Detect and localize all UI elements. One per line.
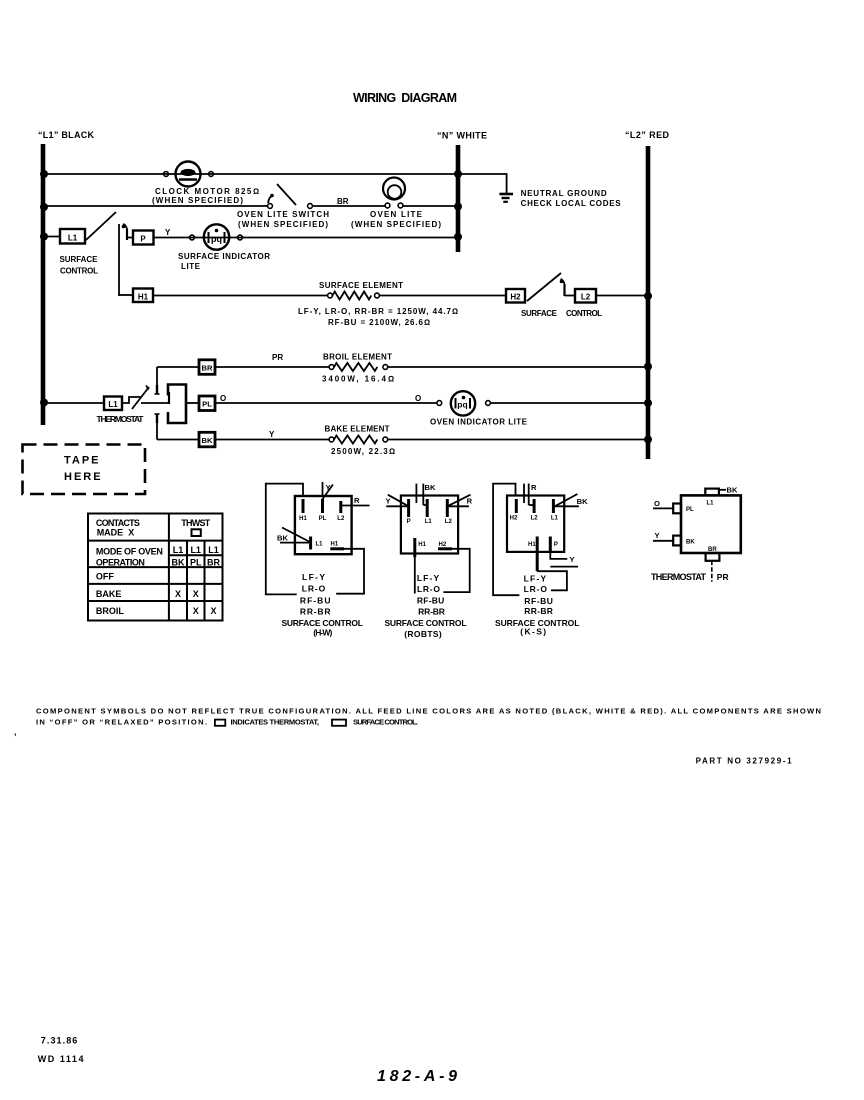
junction L2-bus/broil line: [644, 363, 652, 371]
svg-text:P: P: [140, 235, 146, 244]
svg-text:7.31.86: 7.31.86: [41, 1036, 78, 1046]
wire Y input (thermostat detail): [653, 540, 673, 542]
thermostat moving contact lower: [155, 414, 160, 423]
svg-text:H2: H2: [510, 516, 518, 522]
svg-text:PL: PL: [202, 400, 212, 409]
svg-text:SURFACE CONTROL: SURFACE CONTROL: [384, 618, 466, 628]
terminal H1 (H-W top): [299, 499, 307, 522]
wire K-S outer right loop: [537, 571, 567, 590]
svg-text:(WHEN SPECIFIED): (WHEN SPECIFIED): [152, 196, 243, 205]
svg-text:LF-Y, LR-O, RR-BR = 1250W, 44.: LF-Y, LR-O, RR-BR = 1250W, 44.7Ω: [298, 307, 458, 316]
svg-text:BK: BK: [727, 486, 738, 495]
svg-text:BR: BR: [202, 364, 213, 373]
surface element heater R1: [333, 292, 372, 300]
wire line2 L1-bus to oven lite switch: [43, 205, 268, 207]
svg-text:pq: pq: [211, 234, 222, 244]
wire R output (H-W): [341, 505, 370, 507]
svg-text:Y: Y: [165, 228, 171, 237]
svg-text:INDICATES THERMOSTAT,: INDICATES THERMOSTAT,: [231, 718, 320, 727]
terminal P (K-S bottom): [550, 537, 558, 554]
surface control terminal box L2: [575, 289, 596, 303]
wire Y underline (K-S): [550, 566, 578, 568]
svg-text:(H-W): (H-W): [313, 628, 332, 638]
svg-text:’: ’: [14, 732, 17, 742]
svg-text:L1: L1: [108, 400, 118, 409]
svg-text:COMPONENT SYMBOLS DO NOT REFLE: COMPONENT SYMBOLS DO NOT REFLECT TRUE CO…: [36, 707, 821, 716]
svg-text:2500W, 22.3Ω: 2500W, 22.3Ω: [331, 447, 395, 456]
thermostat PL tab (left upper): [673, 504, 681, 514]
clock motor B1: [176, 162, 201, 187]
svg-text:H1: H1: [299, 516, 307, 522]
svg-text:LF-Y: LF-Y: [524, 573, 547, 583]
wire line1 L1-bus to N-bus (clock motor line): [43, 173, 458, 175]
svg-text:RR-BR: RR-BR: [300, 607, 331, 617]
svg-text:BK: BK: [425, 483, 436, 492]
svg-text:BROIL: BROIL: [96, 606, 125, 616]
svg-text:PL: PL: [686, 507, 694, 513]
svg-text:BAKE ELEMENT: BAKE ELEMENT: [325, 425, 390, 434]
thermostat terminal box PL: [199, 396, 215, 411]
svg-text:3400W, 16.4Ω: 3400W, 16.4Ω: [322, 375, 394, 384]
wire BK input (H-W): [280, 542, 309, 544]
junction L2-bus/bake line: [644, 436, 652, 444]
wire P box to indicator lamp: [154, 237, 459, 239]
svg-text:LR-O: LR-O: [417, 584, 440, 594]
svg-text:H1: H1: [528, 542, 536, 548]
svg-text:(ROBTS): (ROBTS): [404, 629, 442, 639]
svg-text:R: R: [531, 483, 537, 492]
junction N-bus/line1: [454, 170, 462, 178]
wire R input (ROBTS): [449, 505, 469, 507]
svg-text:LR-O: LR-O: [524, 584, 548, 594]
svg-text:“L2” RED: “L2” RED: [625, 130, 670, 140]
svg-text:NEUTRAL GROUND: NEUTRAL GROUND: [521, 189, 607, 198]
terminal H2 (K-S): [510, 499, 518, 522]
wire broil branch to BR box: [157, 366, 199, 368]
svg-text:BROIL ELEMENT: BROIL ELEMENT: [323, 353, 392, 362]
wire bracket to PL box: [186, 402, 199, 404]
terminal right of bake element: [383, 437, 388, 442]
svg-text:BK: BK: [172, 558, 185, 568]
svg-text:L1: L1: [425, 519, 433, 525]
terminal H1 (ROBTS bottom): [415, 538, 427, 594]
wire bake branch vertical: [156, 423, 158, 440]
svg-text:WIRING DIAGRAM: WIRING DIAGRAM: [353, 91, 457, 105]
svg-text:SURFACE: SURFACE: [60, 255, 99, 264]
terminal L2 (ROBTS): [445, 499, 453, 525]
wire vertical branch to H1: [118, 224, 120, 296]
svg-text:SURFACE CONTROL: SURFACE CONTROL: [282, 618, 363, 628]
bus L1 (black feed line): [38, 130, 95, 425]
svg-text:RR-BR: RR-BR: [524, 606, 553, 616]
svg-text:THWST: THWST: [181, 518, 211, 528]
terminal L2 (H-W top): [337, 501, 345, 522]
tape here dashed box: [23, 445, 146, 495]
svg-text:BK: BK: [686, 540, 695, 546]
wire PL box to oven indicator: [215, 402, 437, 404]
svg-text:SURFACE ELEMENT: SURFACE ELEMENT: [319, 281, 403, 290]
wire K-S outer left loop: [493, 484, 519, 596]
svg-text:BR: BR: [207, 558, 220, 568]
terminal H1 (H-W bottom): [330, 542, 344, 549]
thermostat symbol in note: [215, 720, 225, 726]
switch blade Y (ROBTS): [388, 495, 409, 507]
terminal right of clock motor: [209, 172, 214, 177]
terminal L1 (ROBTS): [425, 499, 433, 525]
oven indicator lite DS3: [451, 391, 475, 415]
svg-text:(WHEN SPECIFIED): (WHEN SPECIFIED): [238, 220, 328, 229]
svg-text:SURFACE INDICATOR: SURFACE INDICATOR: [178, 252, 270, 261]
svg-text:Y: Y: [570, 555, 575, 564]
switch contact at L2: [560, 279, 565, 296]
wire Y input (H-W): [322, 482, 324, 496]
svg-text:(WHEN SPECIFIED): (WHEN SPECIFIED): [351, 220, 441, 229]
wire BK input (K-S): [555, 505, 579, 507]
wire ROBTS outer right loop: [443, 549, 469, 592]
surface indicator terminal box P: [133, 231, 154, 245]
junction N-bus/line3: [454, 233, 462, 241]
svg-text:X: X: [193, 589, 199, 599]
wire BK input pair (ROBTS): [416, 484, 427, 505]
svg-text:L1: L1: [707, 501, 715, 507]
wire contact to L2 box: [565, 295, 576, 297]
svg-text:RF-BU = 2100W, 26.6Ω: RF-BU = 2100W, 26.6Ω: [328, 318, 430, 327]
svg-text:“L1” BLACK: “L1” BLACK: [38, 130, 95, 140]
svg-text:L1: L1: [551, 516, 559, 522]
junction L1-bus/thermostat line: [40, 399, 48, 407]
wire corner into H1 box: [119, 294, 133, 296]
wire H-W outer left loop: [266, 484, 303, 595]
svg-text:L2: L2: [581, 293, 591, 302]
surface control terminal box L1: [60, 229, 85, 244]
svg-text:CONTROL: CONTROL: [566, 309, 602, 318]
svg-text:H1: H1: [418, 542, 426, 548]
switch blade BK (H-W): [282, 528, 310, 543]
terminal L1 (K-S): [551, 499, 559, 522]
oven lite switch S2: [268, 184, 313, 208]
wire BK stub (thermostat detail): [719, 489, 726, 491]
svg-text:PL: PL: [190, 558, 202, 568]
thermostat terminal box BR: [199, 360, 215, 375]
junction L1-bus/line1: [40, 170, 48, 178]
svg-text:LF-Y: LF-Y: [417, 573, 440, 583]
svg-text:L1: L1: [190, 545, 201, 555]
svg-text:RF-BU: RF-BU: [524, 596, 553, 606]
terminal PL (H-W top): [319, 499, 327, 522]
svg-text:BR: BR: [337, 197, 349, 206]
svg-text:X: X: [210, 606, 216, 616]
svg-text:WD 1114: WD 1114: [38, 1054, 84, 1064]
svg-text:O: O: [654, 499, 660, 508]
svg-text:L1: L1: [208, 545, 219, 555]
svg-text:HERE: HERE: [64, 471, 103, 483]
svg-text:SURFACE CONTROL.: SURFACE CONTROL.: [353, 718, 418, 727]
svg-text:L2: L2: [337, 516, 345, 522]
wire L1-bus to surface control L1 box: [43, 236, 60, 238]
svg-text:pq: pq: [457, 400, 467, 410]
thermostat common end tick: [168, 392, 170, 404]
wire L1-bus to thermostat L1 box: [43, 402, 104, 404]
svg-text:OVEN INDICATOR LITE: OVEN INDICATOR LITE: [430, 417, 528, 426]
wire oven indicator to L2-bus: [490, 402, 648, 404]
ground symbol (neutral ground): [499, 194, 513, 202]
svg-text:OFF: OFF: [96, 572, 114, 582]
svg-text:X: X: [193, 606, 199, 616]
switch blade surface control: [86, 212, 116, 240]
wire neutral ground stub: [458, 174, 507, 193]
terminal right of oven indicator: [486, 401, 491, 406]
svg-text:H2: H2: [439, 542, 447, 548]
wire R input pair (K-S): [524, 484, 534, 505]
svg-text:THERMOSTAT: THERMOSTAT: [651, 572, 707, 582]
svg-text:L2: L2: [445, 519, 453, 525]
svg-text:“N” WHITE: “N” WHITE: [437, 131, 487, 141]
svg-text:O: O: [220, 394, 226, 403]
wire thermostat common: [141, 402, 169, 404]
svg-text:BK: BK: [277, 534, 288, 543]
terminal left of clock motor: [164, 172, 169, 177]
svg-text:SURFACE: SURFACE: [521, 309, 558, 318]
surface control (K-S) detail box: [507, 496, 564, 552]
switch blade BK (K-S): [553, 494, 577, 507]
svg-text:L1: L1: [316, 542, 324, 548]
terminal H1 (K-S bottom): [528, 537, 537, 572]
svg-text:LF-Y: LF-Y: [302, 572, 325, 582]
svg-text:IN “OFF” OR “RELAXED” POSITION: IN “OFF” OR “RELAXED” POSITION.: [36, 718, 207, 727]
thermostat cam bracket: [168, 385, 186, 424]
svg-text:LR-O: LR-O: [302, 584, 326, 594]
svg-text:MODE OF OVEN: MODE OF OVEN: [96, 547, 163, 557]
svg-text:CONTROL: CONTROL: [60, 267, 98, 276]
junction L2-bus/surface element line: [644, 292, 652, 300]
svg-text:LITE: LITE: [181, 262, 201, 271]
terminal right of indicator: [238, 235, 243, 240]
svg-text:THERMOSTAT: THERMOSTAT: [97, 414, 145, 424]
surface control terminal box H2: [506, 289, 525, 303]
wire BR box to broil element: [215, 366, 330, 368]
wire bake branch to BK box: [157, 439, 199, 441]
wire Y output (K-S): [550, 553, 567, 559]
wire L2 box to L2-bus: [596, 295, 648, 297]
svg-text:L1: L1: [173, 545, 184, 555]
terminal P (ROBTS): [407, 499, 411, 525]
junction L1-bus/line3: [40, 233, 48, 241]
wire BK box to bake element: [215, 439, 330, 441]
svg-text:H1: H1: [138, 293, 149, 302]
switch blade Y (H-W): [322, 485, 334, 501]
svg-text:MADE X: MADE X: [97, 528, 135, 538]
thermostat switch step contact: [122, 397, 141, 403]
svg-text:H2: H2: [510, 293, 521, 302]
thermostat BR tab (bottom): [706, 553, 720, 561]
svg-text:OVEN LITE: OVEN LITE: [370, 210, 423, 219]
surface indicator lite DS1: [204, 224, 229, 249]
svg-text:RR-BR: RR-BR: [418, 607, 445, 617]
switch blade surface control right: [527, 273, 561, 301]
svg-text:CHECK LOCAL CODES: CHECK LOCAL CODES: [521, 199, 622, 208]
svg-text:RF-BU: RF-BU: [300, 596, 331, 606]
legend H-W wire colors: [300, 572, 331, 616]
thermostat moving contact upper: [155, 385, 160, 394]
switch blade R (ROBTS): [447, 495, 470, 507]
svg-text:O: O: [415, 394, 421, 403]
wire Y input (ROBTS): [386, 505, 407, 507]
terminal L1 (H-W): [311, 537, 324, 550]
wire oven lite to N-bus: [403, 205, 458, 207]
svg-text:Y: Y: [269, 430, 275, 439]
terminal left of oven indicator: [437, 401, 442, 406]
bus N (white neutral line): [437, 131, 487, 253]
junction L1-bus/line2: [40, 203, 48, 211]
svg-text:L2: L2: [531, 516, 539, 522]
terminal H2 (ROBTS bottom): [438, 542, 452, 549]
thermostat symbol checkbox: [192, 529, 201, 536]
svg-text:BK: BK: [577, 497, 588, 506]
terminal left of bake element: [329, 437, 334, 442]
surface control symbol in note: [332, 720, 346, 726]
wire H1 box to surface element: [153, 295, 328, 297]
svg-text:R: R: [354, 496, 360, 505]
wire broil branch vertical: [156, 367, 158, 385]
wire to P box: [127, 237, 133, 239]
wire broil element to L2-bus: [388, 366, 649, 368]
svg-text:Y: Y: [655, 531, 660, 540]
svg-text:R: R: [467, 497, 473, 506]
terminal right of surface element: [375, 293, 380, 298]
terminal right of broil element: [383, 365, 388, 370]
svg-text:P: P: [407, 519, 411, 525]
terminal left of surface element: [328, 293, 333, 298]
svg-text:(K-S): (K-S): [520, 627, 546, 637]
bake element heater R3: [334, 436, 377, 444]
svg-text:OPERATION: OPERATION: [96, 558, 145, 568]
surface element terminal box H1: [133, 289, 153, 303]
wire bake element to L2-bus: [388, 439, 649, 441]
wire oven lite switch to oven lite: [312, 205, 386, 207]
svg-text:X: X: [175, 589, 181, 599]
contacts table: [88, 514, 223, 621]
thermostat terminal box BK: [199, 432, 215, 447]
legend K-S wire colors: [524, 573, 553, 616]
thermostat BK tab (top): [705, 489, 719, 496]
thermostat detail box: [681, 495, 741, 553]
oven lite lamp DS2: [383, 178, 405, 208]
svg-text:PR: PR: [717, 572, 729, 582]
svg-text:PL: PL: [319, 516, 327, 522]
junction L2-bus/oven indicator line: [644, 399, 652, 407]
svg-text:H1: H1: [331, 542, 339, 548]
switch contact at P branch: [122, 224, 127, 240]
wire PR output (thermostat detail): [711, 561, 713, 582]
svg-text:P: P: [554, 542, 558, 548]
junction N-bus/line2: [454, 203, 462, 211]
terminal L2 (K-S): [531, 499, 539, 522]
svg-text:L1: L1: [68, 234, 78, 243]
thermostat terminal box L1: [104, 397, 122, 411]
svg-text:Y: Y: [386, 497, 391, 506]
svg-text:PR: PR: [272, 353, 283, 362]
svg-text:BK: BK: [202, 436, 213, 445]
thermostat switch blade: [132, 386, 149, 410]
surface control (ROBTS) detail box: [401, 496, 458, 554]
terminal left of indicator: [190, 235, 195, 240]
svg-text:BAKE: BAKE: [96, 589, 122, 599]
broil element heater R2: [334, 363, 377, 371]
wire O input (thermostat detail): [653, 507, 673, 509]
surface control (H-W) detail box: [295, 496, 352, 554]
svg-text:CLOCK MOTOR 825Ω: CLOCK MOTOR 825Ω: [155, 187, 259, 196]
svg-text:RF-BU: RF-BU: [417, 595, 444, 605]
thermostat BK tab (left lower): [673, 536, 681, 546]
svg-text:CONTACTS: CONTACTS: [96, 518, 140, 528]
svg-text:TAPE: TAPE: [64, 455, 101, 467]
svg-text:PART NO 327929-1: PART NO 327929-1: [696, 757, 793, 766]
wire H-W outer right loop: [336, 549, 364, 594]
wire surface element to H2 box: [379, 295, 506, 297]
terminal left of broil element: [329, 365, 334, 370]
legend ROBTS wire colors: [417, 573, 445, 617]
bus L2 (red feed line): [625, 130, 670, 459]
